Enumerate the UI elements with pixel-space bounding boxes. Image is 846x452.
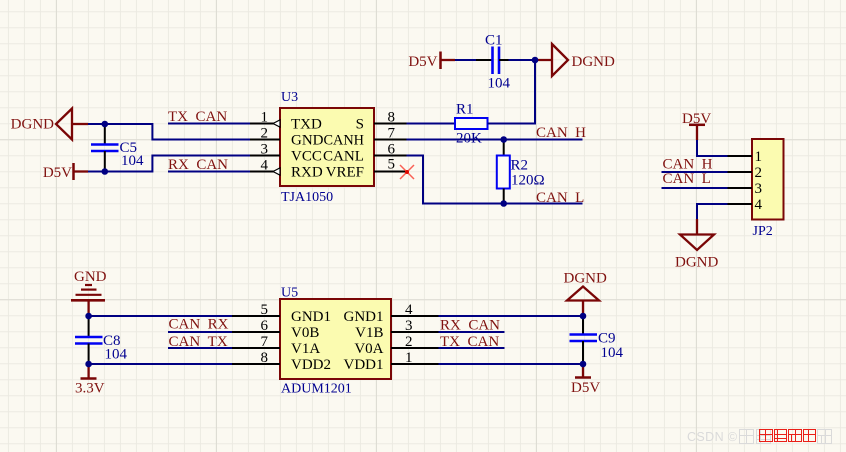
wire D5V to JP2 pin1 xyxy=(697,140,728,156)
svg-text:JP2: JP2 xyxy=(753,224,773,239)
svg-text:DGND: DGND xyxy=(572,54,615,70)
svg-text:GND: GND xyxy=(74,269,107,285)
wire DGND to U3.GND (pin2) xyxy=(88,124,250,140)
junction (DGND / C5 top) xyxy=(102,121,109,128)
svg-text:2: 2 xyxy=(755,165,763,181)
power port DGND (above C9) xyxy=(564,271,607,317)
svg-text:CANH: CANH xyxy=(324,132,365,148)
svg-text:5: 5 xyxy=(261,302,269,318)
capacitor C9 xyxy=(570,316,598,364)
svg-text:V1A: V1A xyxy=(291,341,320,357)
svg-text:V0A: V0A xyxy=(354,341,383,357)
wire U5.GND1 (pin4) to DGND/C9 xyxy=(439,315,584,317)
junction (D5V / C5 bottom) xyxy=(102,168,109,175)
U5 pin 2 V0A xyxy=(354,334,438,357)
wire GND to U5.GND1 (pin5) xyxy=(89,315,232,317)
JP2 pin 4 xyxy=(728,197,763,213)
U3 pin 3 VCC xyxy=(250,142,322,165)
power port D5V (at JP2) xyxy=(682,111,711,140)
svg-text:CAN H: CAN H xyxy=(536,125,586,141)
svg-text:D5V: D5V xyxy=(571,380,600,396)
svg-text:3: 3 xyxy=(405,318,413,334)
svg-text:6: 6 xyxy=(261,318,269,334)
U3 pin 1 TXD xyxy=(250,110,322,133)
svg-text:4: 4 xyxy=(755,197,763,213)
svg-text:8: 8 xyxy=(388,110,396,126)
svg-text:D5V: D5V xyxy=(43,165,72,181)
svg-text:104: 104 xyxy=(105,347,128,363)
capacitor C1 xyxy=(476,47,509,75)
resistor R2 xyxy=(497,140,510,204)
junction (C1 / DGND / R1 riser) xyxy=(532,57,539,64)
wire U3.CANL (pin6) to CAN_L xyxy=(407,156,583,204)
U3 pin 2 GND xyxy=(250,126,324,149)
U5 pin 1 VDD1 xyxy=(344,350,439,373)
wire JP2 pin4 to DGND xyxy=(697,204,728,219)
U5 pin 3 V1B xyxy=(355,318,438,341)
svg-text:8: 8 xyxy=(261,350,269,366)
svg-text:1: 1 xyxy=(405,350,413,366)
U3 pin 7 CANH xyxy=(324,126,407,149)
junction (C9 bottom / D5V) xyxy=(580,361,587,368)
svg-text:R2: R2 xyxy=(511,158,529,174)
wire CAN_L to JP2 pin3 xyxy=(662,187,728,189)
junction (CAN_L / R2 bottom) xyxy=(500,200,507,207)
U3 pin 4 RXD xyxy=(250,158,323,181)
U3 pin 5 VREF xyxy=(326,157,407,181)
wire U3.CANH (pin7) to CAN_H xyxy=(407,139,583,141)
svg-text:RXD: RXD xyxy=(291,164,323,180)
svg-text:3: 3 xyxy=(261,142,269,158)
wire TX_CAN stub (pin2) xyxy=(439,347,505,349)
svg-text:DGND: DGND xyxy=(564,271,607,287)
svg-text:C9: C9 xyxy=(598,331,616,347)
power port DGND (below JP2) xyxy=(675,219,718,271)
wire RX_CAN stub (pin3) xyxy=(439,331,505,333)
svg-text:120Ω: 120Ω xyxy=(511,173,545,189)
op-amp U5 body (ADUM1201) xyxy=(280,299,391,379)
capacitor C8 xyxy=(75,316,103,364)
svg-text:CAN L: CAN L xyxy=(663,171,711,187)
U5 pin 8 VDD2 xyxy=(232,350,331,373)
JP2 pin 1 xyxy=(728,149,763,165)
svg-text:CANL: CANL xyxy=(323,148,364,164)
power port D5V (below C9) xyxy=(571,364,600,396)
power port GND (earth, above C8) xyxy=(71,269,107,316)
svg-text:1: 1 xyxy=(755,149,763,165)
svg-text:6: 6 xyxy=(388,142,396,158)
svg-text:GND: GND xyxy=(291,132,324,148)
wire RX_CAN to U3.RXD (pin4) xyxy=(168,171,250,173)
svg-text:CAN RX: CAN RX xyxy=(169,317,229,333)
svg-text:7: 7 xyxy=(261,334,269,350)
svg-text:2: 2 xyxy=(405,334,413,350)
svg-text:CAN L: CAN L xyxy=(536,190,584,206)
JP2 pin 3 xyxy=(728,181,763,197)
U3 pin 8 S xyxy=(356,110,407,133)
svg-text:104: 104 xyxy=(601,345,624,361)
junction (C9 top / DGND) xyxy=(580,313,587,320)
wire TX_CAN to U3.TXD (pin1) xyxy=(168,123,250,125)
svg-text:1: 1 xyxy=(261,110,269,126)
svg-text:TJA1050: TJA1050 xyxy=(281,190,333,205)
junction (C8 bottom / 3.3V) xyxy=(85,361,92,368)
wire D5V to U3.VCC (pin3) xyxy=(88,156,250,172)
power port DGND (left of C5) xyxy=(11,109,88,140)
capacitor C5 xyxy=(91,124,119,172)
junction (CAN_H / R2 top) xyxy=(500,136,507,143)
svg-text:V1B: V1B xyxy=(355,325,383,341)
svg-text:C1: C1 xyxy=(485,33,503,49)
svg-text:D5V: D5V xyxy=(408,54,437,70)
U5 pin 7 V1A xyxy=(232,334,320,357)
svg-text:GND1: GND1 xyxy=(291,309,331,325)
connector JP2 body xyxy=(752,139,784,220)
svg-text:VDD2: VDD2 xyxy=(291,357,331,373)
wire U5.VDD1 (pin1) to D5V/C9 xyxy=(439,363,584,365)
svg-text:3.3V: 3.3V xyxy=(75,381,105,397)
svg-text:U5: U5 xyxy=(281,286,298,301)
svg-text:GND1: GND1 xyxy=(344,309,384,325)
junction (GND / C8 top) xyxy=(85,313,92,320)
svg-text:VCC: VCC xyxy=(291,148,322,164)
U3 pin 6 CANL xyxy=(323,142,407,165)
svg-text:S: S xyxy=(356,116,364,132)
wire U3.S (pin8) to R1 xyxy=(407,123,456,125)
svg-text:104: 104 xyxy=(121,153,144,169)
U5 pin 5 GND1 xyxy=(232,302,331,325)
U5 pin 6 V0B xyxy=(232,318,319,341)
svg-text:R1: R1 xyxy=(456,102,474,118)
power port DGND (right of C1) xyxy=(535,44,615,76)
svg-text:VDD1: VDD1 xyxy=(344,357,384,373)
svg-text:2: 2 xyxy=(261,126,269,142)
wire 3.3V to U5.VDD2 (pin8) xyxy=(89,363,232,365)
JP2 pin 2 xyxy=(728,165,763,181)
svg-text:4: 4 xyxy=(405,302,413,318)
svg-text:VREF: VREF xyxy=(326,164,364,180)
power port D5V (at C1) xyxy=(408,52,455,70)
svg-text:DGND: DGND xyxy=(675,255,718,271)
power port D5V (left of C5) xyxy=(43,163,88,181)
svg-text:3: 3 xyxy=(755,181,763,197)
svg-text:V0B: V0B xyxy=(291,325,319,341)
svg-text:ADUM1201: ADUM1201 xyxy=(281,382,352,397)
op-amp U3 body (TJA1050) xyxy=(280,108,374,186)
svg-text:TXD: TXD xyxy=(291,116,322,132)
svg-text:5: 5 xyxy=(388,157,396,173)
resistor R1 xyxy=(455,118,488,129)
svg-text:104: 104 xyxy=(488,76,511,92)
wire CAN_H to JP2 pin2 xyxy=(662,171,728,173)
wire D5V to C1 xyxy=(455,59,476,61)
svg-text:U3: U3 xyxy=(281,90,298,105)
svg-text:4: 4 xyxy=(261,158,269,174)
U5 pin 4 GND1 xyxy=(344,302,439,325)
wire C1 to DGND node xyxy=(509,59,536,61)
power port 3.3V (below C8) xyxy=(75,364,105,397)
no-connect X on U3 pin 5 xyxy=(400,165,414,179)
svg-text:7: 7 xyxy=(388,126,396,142)
wire R1 to C1/DGND node xyxy=(488,60,536,124)
wire CAN_TX to U5.V1A (pin7) xyxy=(168,347,232,349)
wire CAN_RX to U5.V0B (pin6) xyxy=(168,331,232,333)
svg-text:DGND: DGND xyxy=(11,117,54,133)
